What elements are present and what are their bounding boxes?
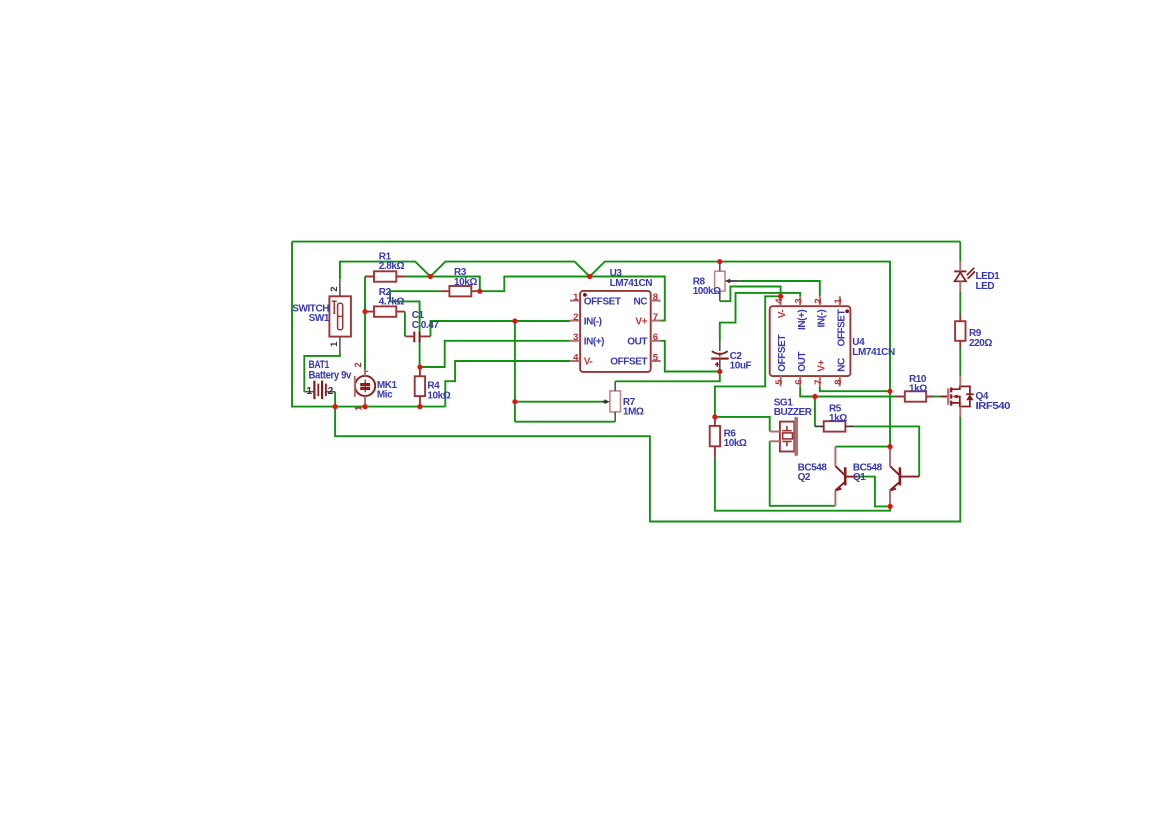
wire LED to R9: [959, 291, 961, 314]
svg-text:3: 3: [573, 332, 578, 343]
svg-text:OFFSET: OFFSET: [610, 357, 647, 368]
svg-text:OFFSET: OFFSET: [584, 296, 621, 307]
svg-text:220Ω: 220Ω: [969, 338, 992, 349]
wire battery plus to rail: [334, 392, 336, 407]
pin 1 dot U4: [845, 309, 849, 313]
microphone MK1: [355, 376, 375, 397]
wire R2 to C1: [404, 312, 406, 337]
wire R6 bottom to Q1 emitter: [715, 458, 890, 511]
pins of R6: [714, 417, 716, 458]
svg-text:2.8kΩ: 2.8kΩ: [379, 261, 405, 272]
wire R8 bottom to U4 pin4: [720, 287, 781, 302]
svg-text:2: 2: [328, 386, 334, 397]
emitter pin Q2: [834, 490, 836, 505]
U3 left pin stub y300.6: [570, 300, 580, 302]
svg-text:100kΩ: 100kΩ: [693, 286, 721, 297]
wire buzzer to Q2 emitter: [770, 441, 836, 506]
svg-text:8: 8: [653, 292, 658, 303]
pin 2 of MK1: [364, 369, 366, 376]
pin 2 of SG1: [770, 440, 780, 442]
pins of R4: [419, 367, 421, 407]
pin 1 of SW1: [339, 337, 341, 353]
node R5/R10 junction: [812, 394, 817, 399]
node U4 V+ junction: [887, 389, 892, 394]
U3 right pin stub y340.8: [651, 340, 661, 342]
buzzer SG1: [780, 419, 796, 455]
pin bottom LED1: [959, 281, 961, 291]
drain pin Q4: [959, 376, 961, 386]
U4 top pin stub x819.8: [819, 296, 821, 306]
LED LED1: [954, 268, 975, 282]
pins of C1: [405, 335, 430, 337]
wire C2 to U4 pin3: [720, 293, 800, 342]
svg-text:1kΩ: 1kΩ: [909, 384, 927, 395]
svg-text:LED: LED: [976, 281, 995, 292]
svg-text:V+: V+: [816, 359, 827, 371]
node Q1 emitter junction: [888, 504, 893, 509]
wire R5 riser: [814, 397, 816, 427]
pin bottom R7: [614, 412, 616, 422]
wire R8 wiper to U4 pin2: [739, 281, 820, 296]
U4 bottom pin stub x780.6: [780, 376, 782, 386]
potentiometer R7: [610, 391, 621, 412]
svg-text:IRF540: IRF540: [976, 401, 1012, 412]
op-amp U3 LM741CN: [580, 291, 651, 372]
resistor R9: [955, 321, 965, 341]
svg-text:IN(-): IN(-): [816, 310, 827, 328]
wire R3 to U3 V+ node: [480, 277, 590, 292]
switch SW1: [329, 296, 351, 336]
MOSFET Q4 IRF540: [940, 386, 973, 406]
wire feedback vertical: [514, 321, 516, 422]
svg-text:10uF: 10uF: [730, 361, 752, 372]
node battery junction: [333, 404, 338, 409]
wire R7 top to C2: [615, 372, 720, 382]
source pin Q4: [959, 407, 961, 418]
wire mic bias riser: [364, 277, 366, 370]
svg-text:Battery 9v: Battery 9v: [309, 370, 353, 382]
svg-text:OUT: OUT: [797, 352, 808, 372]
svg-text:1: 1: [353, 406, 363, 411]
U3 right pin stub y300.6: [651, 300, 661, 302]
transistor Q2 BC548: [834, 466, 857, 492]
wire U4 pin7 V+: [820, 386, 890, 391]
node IN- junction: [512, 318, 517, 323]
wire U4 pin4 to R6: [715, 296, 781, 417]
svg-text:SW1: SW1: [309, 313, 330, 324]
svg-text:2: 2: [353, 362, 363, 367]
U3 left pin stub y361.0: [570, 360, 580, 362]
capacitor C2 10uF: [711, 351, 729, 367]
wire node A to R3: [430, 277, 480, 292]
svg-text:Q2: Q2: [798, 472, 811, 483]
wiper arrow R7: [602, 401, 605, 403]
U3 left pin stub y320.6: [570, 320, 580, 322]
svg-text:BUZZER: BUZZER: [774, 407, 813, 418]
transistor Q1 BC548: [889, 466, 919, 492]
pin left R5: [815, 425, 824, 427]
collector pin Q1: [889, 447, 891, 467]
pin 2 mark MK1: [366, 370, 368, 372]
wire Q2 collector link: [835, 446, 890, 448]
svg-text:V-: V-: [777, 310, 788, 319]
svg-text:IN(+): IN(+): [797, 310, 808, 330]
pins of R1: [365, 276, 405, 278]
svg-text:4.7kΩ: 4.7kΩ: [379, 297, 405, 308]
svg-text:C 0.47: C 0.47: [412, 320, 440, 331]
svg-text:6: 6: [653, 332, 658, 343]
resistor R5: [824, 421, 846, 431]
pin bottom C2: [719, 359, 721, 372]
node R1/R3 junction: [428, 274, 433, 279]
svg-text:OUT: OUT: [627, 337, 647, 348]
wire R10 to Q4 gate: [934, 396, 940, 398]
svg-text:IN(-): IN(-): [584, 316, 602, 327]
pins of R2: [365, 311, 405, 313]
node R4 top junction: [417, 364, 422, 369]
pin 1 of SG1: [770, 431, 780, 433]
pins of R10: [895, 396, 934, 398]
pins of R9: [959, 315, 961, 348]
wire SW1 to battery: [304, 353, 340, 392]
resistor R4: [415, 376, 425, 396]
pin 1 of MK1: [364, 396, 366, 407]
wire R4 to U3 pin3: [420, 341, 570, 367]
wire R5 to Q1 base: [854, 426, 919, 476]
node R7 wiper junction: [512, 399, 517, 404]
pins of R3: [440, 290, 479, 292]
resistor R3: [449, 286, 471, 296]
U4 top pin stub x780.6: [780, 296, 782, 306]
pin 2 of BAT1: [327, 391, 335, 393]
pin bottom R8: [719, 291, 721, 301]
node collectors junction: [887, 444, 892, 449]
node U3 V+ junction: [587, 274, 592, 279]
pin top R7: [614, 381, 616, 391]
node R6 top junction: [712, 414, 717, 419]
pin 2 of SW1: [339, 279, 341, 296]
U4 bottom pin stub x800.2: [799, 376, 801, 386]
svg-text:1MΩ: 1MΩ: [623, 407, 644, 418]
U4 bottom pin stub x819.8: [819, 376, 821, 386]
resistor R10: [905, 391, 926, 401]
wire U3 OUT to C2: [661, 341, 720, 372]
svg-text:OFFSET: OFFSET: [836, 309, 847, 346]
wire U3 pin7 V+ riser: [590, 277, 665, 321]
battery BAT1: [314, 381, 326, 400]
wire LED top: [959, 242, 961, 262]
wire U3 pin4 to ground: [445, 361, 570, 407]
svg-text:Q1: Q1: [853, 472, 866, 483]
svg-text:LM741CN: LM741CN: [610, 278, 653, 289]
wiper arrow R8: [730, 280, 739, 282]
svg-text:7: 7: [653, 312, 658, 323]
wire R1 output: [405, 276, 430, 278]
op-amp U4 LM741CN: [770, 306, 851, 376]
svg-text:10kΩ: 10kΩ: [724, 438, 747, 449]
wire U4 OUT to R10: [800, 386, 895, 396]
svg-text:1: 1: [307, 386, 313, 397]
svg-text:NC: NC: [633, 296, 647, 307]
wire R7 wiper: [515, 401, 605, 403]
wire R7 bottom: [515, 421, 615, 423]
svg-text:3: 3: [793, 299, 804, 304]
svg-text:LM741CN: LM741CN: [852, 347, 895, 358]
svg-text:2: 2: [573, 312, 578, 323]
U3 right pin stub y361.0: [651, 360, 661, 362]
node U4 V- junction: [778, 294, 783, 299]
pin top LED1: [959, 262, 961, 272]
wire Q2 base to Q1 emitter: [857, 477, 890, 507]
node R8 supply junction: [717, 259, 722, 264]
wire Q4 source to battery return: [335, 407, 960, 522]
wire top border net: [292, 241, 960, 243]
U3 right pin stub y320.6: [651, 320, 661, 322]
pin 1 of BAT1: [304, 391, 313, 393]
svg-text:V-: V-: [584, 357, 593, 368]
svg-text:OFFSET: OFFSET: [777, 335, 788, 372]
svg-text:7: 7: [813, 380, 824, 385]
potentiometer R8: [715, 271, 725, 291]
wire R6 to buzzer: [715, 417, 770, 432]
pin 1 dot U3: [583, 293, 587, 297]
svg-text:10kΩ: 10kΩ: [427, 390, 450, 401]
collector pin Q2: [834, 447, 836, 467]
resistor R6: [710, 426, 720, 446]
pin top R8: [719, 262, 721, 272]
wire C1 to U3 pin2: [431, 321, 570, 336]
node C2 junction: [717, 369, 722, 374]
U4 top pin stub x800.2: [799, 296, 801, 306]
wire R3 left staircase: [390, 291, 440, 367]
wire R9 to Q4 drain: [959, 347, 961, 376]
node R4 ground junction: [417, 404, 422, 409]
node R3 output junction: [477, 289, 482, 294]
node R2/mic junction: [362, 309, 367, 314]
wire V+ supply rail: [340, 262, 890, 447]
wire left border and ground rail: [292, 242, 445, 407]
svg-text:2: 2: [329, 287, 340, 292]
svg-text:IN(+): IN(+): [584, 337, 604, 348]
svg-text:NC: NC: [836, 358, 847, 372]
svg-text:10kΩ: 10kΩ: [454, 277, 477, 288]
svg-text:1kΩ: 1kΩ: [829, 413, 847, 424]
U3 left pin stub y340.8: [570, 340, 580, 342]
capacitor C1: [414, 332, 419, 343]
resistor R1: [374, 271, 396, 281]
svg-text:6: 6: [793, 380, 804, 385]
U4 top pin stub x839.8: [839, 296, 841, 306]
pin top C2: [719, 342, 721, 351]
svg-text:8: 8: [833, 380, 844, 385]
emitter pin Q1: [889, 490, 891, 506]
node mic ground junction: [362, 404, 367, 409]
U4 bottom pin stub x839.8: [839, 376, 841, 386]
resistor R2: [374, 306, 396, 316]
pin right R5: [845, 425, 854, 427]
svg-text:Mic: Mic: [377, 390, 393, 401]
svg-text:V+: V+: [635, 316, 647, 327]
svg-text:2: 2: [813, 299, 824, 304]
